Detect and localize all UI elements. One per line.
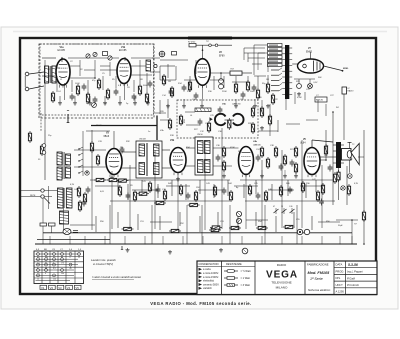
svg-text:V5: V5: [75, 286, 79, 290]
svg-text:47: 47: [273, 206, 275, 208]
svg-text:A 1295: A 1295: [336, 290, 345, 294]
svg-text:6BA6: 6BA6: [104, 135, 110, 138]
svg-text:210: 210: [45, 257, 48, 259]
svg-text:EM85: EM85: [306, 52, 313, 54]
svg-text:EF89: EF89: [219, 56, 225, 58]
svg-text:UABC80: UABC80: [232, 103, 241, 106]
svg-text:RETE: RETE: [30, 195, 36, 197]
svg-text:T.P.: T.P.: [206, 41, 209, 43]
svg-text:1,2: 1,2: [53, 257, 56, 259]
svg-text:1ª Serie: 1ª Serie: [310, 277, 323, 281]
svg-text:50µF: 50µF: [338, 225, 343, 227]
svg-text:CM.508: CM.508: [139, 139, 146, 141]
svg-text:elettrolitici: elettrolitici: [203, 280, 215, 283]
svg-text:0: 0: [45, 273, 46, 275]
svg-text:Lavalori mis. quando: Lavalori mis. quando: [91, 258, 116, 262]
svg-text:P.Galli: P.Galli: [347, 276, 355, 280]
svg-text:ECC85: ECC85: [119, 50, 127, 52]
svg-text:variabili: variabili: [203, 287, 212, 290]
svg-text:FABBRICAZIONE: FABBRICAZIONE: [307, 263, 329, 267]
svg-text:Schema elettrico: Schema elettrico: [308, 288, 331, 292]
svg-text:VEGA RADIO - Mod. FM105 second: VEGA RADIO - Mod. FM105 seconda serie.: [150, 301, 251, 306]
svg-text:1M: 1M: [168, 81, 171, 83]
svg-text:5-3-56: 5-3-56: [348, 263, 358, 267]
svg-text:6,3: 6,3: [37, 257, 40, 259]
svg-text:V1b: V1b: [121, 47, 126, 49]
svg-text:CONDENSATORI: CONDENSATORI: [199, 263, 219, 266]
svg-text:= 1 Watt: = 1 Watt: [241, 277, 251, 280]
svg-text:V1a: V1a: [60, 47, 65, 49]
svg-text:Mod. FM105: Mod. FM105: [308, 271, 331, 275]
svg-text:RESISTENZE: RESISTENZE: [226, 263, 242, 266]
svg-text:RADIO: RADIO: [277, 263, 287, 267]
svg-text:95: 95: [45, 262, 47, 264]
svg-text:a mica 1000V.: a mica 1000V.: [203, 272, 219, 275]
svg-text:V4b: V4b: [253, 140, 258, 143]
svg-text:TELEVISIONE: TELEVISIONE: [271, 281, 291, 285]
svg-text:V4b: V4b: [170, 139, 175, 142]
svg-text:85: 85: [61, 257, 63, 259]
svg-text:ceramici 500V.: ceramici 500V.: [203, 283, 220, 286]
svg-text:MOD.: MOD.: [343, 68, 349, 70]
svg-text:a carta: a carta: [203, 268, 211, 271]
svg-text:12: 12: [37, 279, 39, 281]
svg-text:TASTI: TASTI: [96, 124, 102, 127]
svg-text:= 3 Watt: = 3 Watt: [241, 284, 251, 287]
svg-text:UFF.T: UFF.T: [336, 283, 344, 287]
svg-text:0: 0: [37, 268, 38, 270]
svg-text:170: 170: [61, 262, 64, 264]
svg-text:100K: 100K: [75, 83, 80, 85]
svg-text:0: 0: [53, 262, 54, 264]
svg-text:EABC80: EABC80: [316, 99, 323, 102]
svg-text:MILANO: MILANO: [276, 286, 288, 290]
svg-text:Ing.L.Pagani: Ing.L.Pagani: [347, 270, 363, 274]
svg-text:0,5M: 0,5M: [297, 97, 302, 99]
svg-text:T.P.: T.P.: [354, 224, 357, 226]
svg-text:6,3: 6,3: [53, 268, 56, 270]
svg-text:68: 68: [45, 268, 47, 270]
svg-text:230: 230: [61, 273, 64, 275]
svg-text:110: 110: [53, 279, 56, 281]
svg-text:I valori misurati a vuoto vari: I valori misurati a vuoto variabili amme…: [92, 275, 141, 279]
svg-text:6,3V: 6,3V: [70, 184, 75, 186]
svg-text:a mica 1500V.: a mica 1500V.: [203, 276, 219, 279]
svg-text:ECC85: ECC85: [58, 50, 66, 52]
svg-text:0: 0: [70, 257, 71, 259]
svg-text:R17: R17: [231, 69, 234, 71]
svg-text:si misura il 50(V): si misura il 50(V): [93, 262, 113, 266]
svg-text:UL84: UL84: [300, 143, 306, 145]
svg-text:1M: 1M: [266, 79, 269, 81]
svg-text:V4: V4: [67, 286, 71, 290]
svg-text:= ½ Watt: = ½ Watt: [241, 269, 251, 273]
svg-text:P.Colomb: P.Colomb: [347, 283, 359, 287]
svg-text:DATA: DATA: [336, 263, 343, 267]
svg-text:220K: 220K: [222, 91, 227, 93]
svg-text:V1: V1: [41, 286, 45, 290]
svg-text:UABC80: UABC80: [253, 144, 262, 147]
svg-text:CM.50: CM.50: [197, 134, 203, 136]
svg-text:1,5: 1,5: [37, 273, 40, 275]
svg-text:C.M.: C.M.: [289, 206, 293, 208]
svg-text:R7 4700: R7 4700: [188, 42, 195, 44]
svg-text:1n: 1n: [148, 131, 150, 133]
svg-text:DIS.: DIS.: [336, 276, 341, 280]
svg-text:RADIO: RADIO: [348, 90, 355, 93]
svg-text:PROD.: PROD.: [336, 269, 345, 273]
svg-text:470K: 470K: [230, 147, 235, 149]
svg-text:VEGA: VEGA: [266, 270, 298, 281]
svg-text:V3: V3: [58, 286, 62, 290]
svg-text:45: 45: [70, 268, 72, 270]
svg-text:V.LM: V.LM: [183, 119, 185, 124]
svg-text:12: 12: [78, 257, 80, 259]
svg-text:2,1: 2,1: [37, 262, 40, 264]
svg-text:V2: V2: [50, 286, 54, 290]
